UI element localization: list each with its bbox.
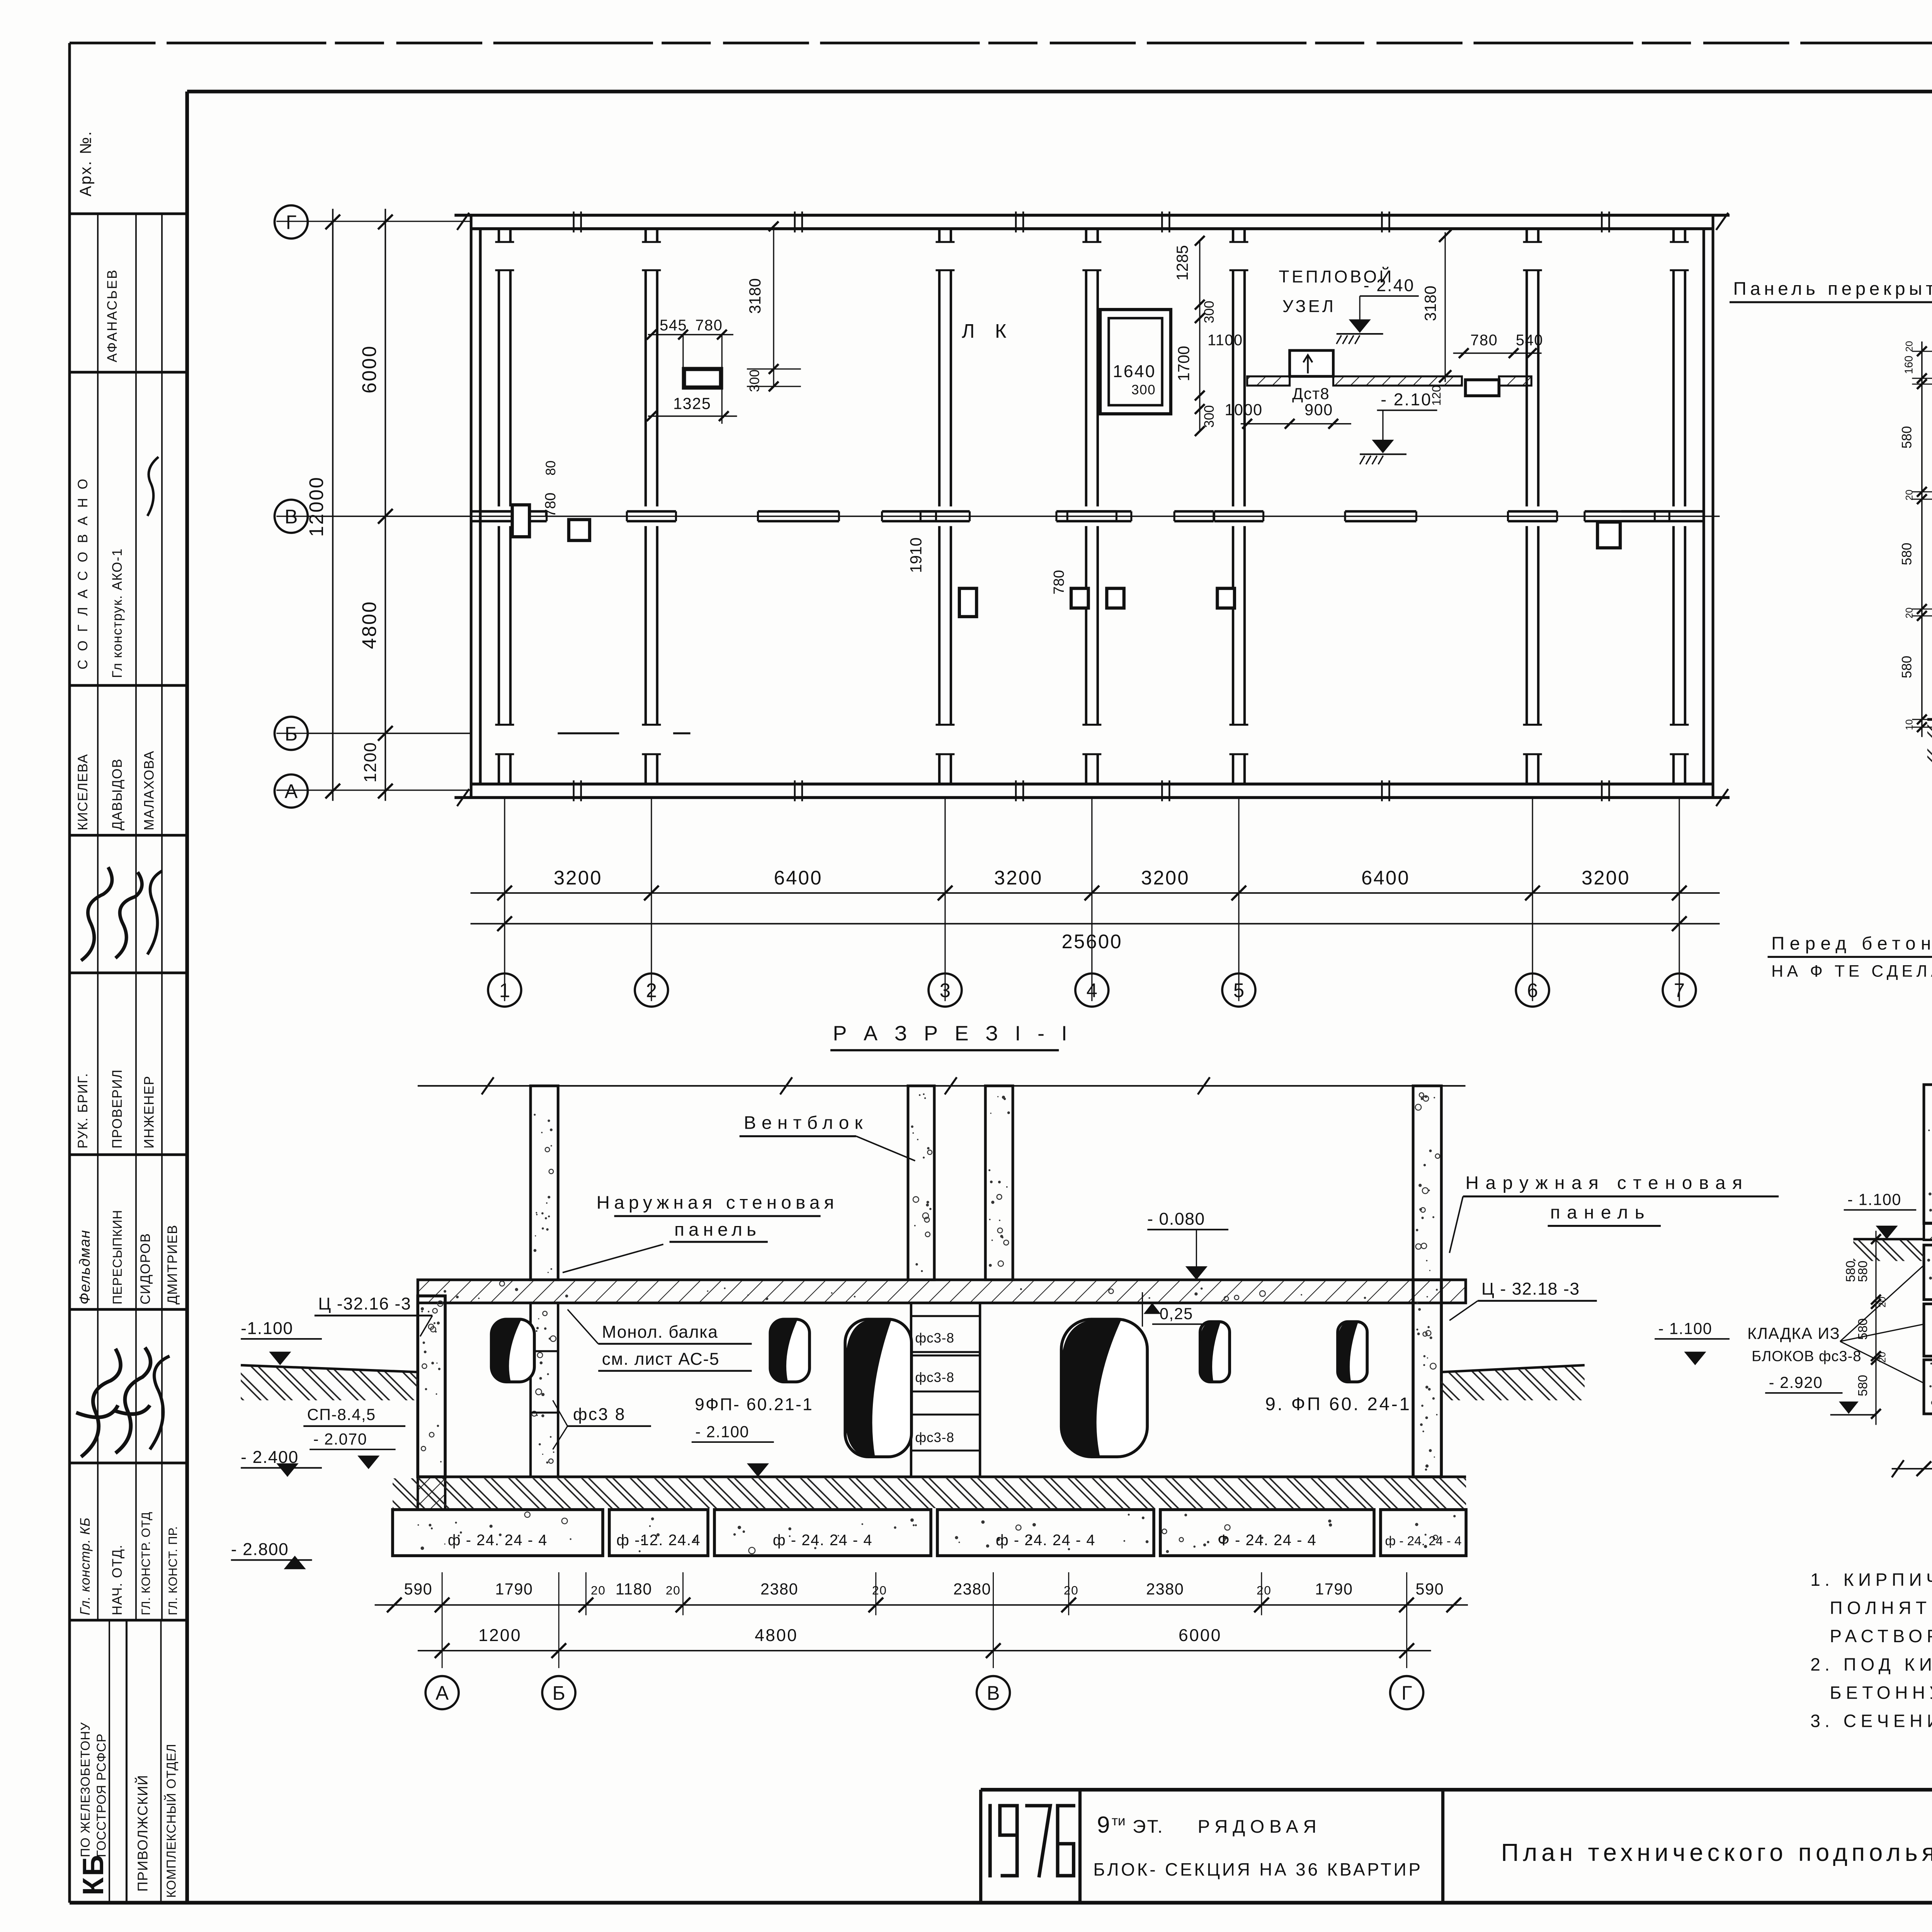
svg-text:2380: 2380 xyxy=(1146,1580,1184,1598)
svg-text:6000: 6000 xyxy=(358,345,380,393)
svg-text:590: 590 xyxy=(404,1580,433,1598)
svg-text:9ФП- 60.21-1: 9ФП- 60.21-1 xyxy=(695,1395,813,1414)
svg-text:НАЧ. ОТД.: НАЧ. ОТД. xyxy=(110,1544,125,1616)
svg-text:2380: 2380 xyxy=(953,1580,991,1598)
svg-text:300: 300 xyxy=(1131,382,1156,397)
svg-text:540: 540 xyxy=(1516,332,1543,349)
svg-text:-1.100: -1.100 xyxy=(241,1319,293,1338)
svg-text:- 1.100: - 1.100 xyxy=(1658,1320,1713,1337)
svg-text:- 2.920: - 2.920 xyxy=(1769,1374,1823,1391)
svg-text:120: 120 xyxy=(1429,385,1443,406)
svg-text:20: 20 xyxy=(872,1583,887,1597)
svg-text:ГЛ. КОНСТР. ОТД: ГЛ. КОНСТР. ОТД xyxy=(139,1512,153,1615)
svg-text:6000: 6000 xyxy=(1179,1626,1222,1645)
svg-text:590: 590 xyxy=(1416,1580,1444,1598)
svg-text:1285: 1285 xyxy=(1173,245,1191,281)
svg-text:В: В xyxy=(285,506,298,528)
svg-text:ф - 24. 24 - 4: ф - 24. 24 - 4 xyxy=(773,1532,872,1549)
svg-text:ф - 24. 24 - 4: ф - 24. 24 - 4 xyxy=(996,1532,1095,1549)
svg-text:СП-8.4,5: СП-8.4,5 xyxy=(307,1406,376,1423)
svg-text:Панель перекрытия: Панель перекрытия xyxy=(1733,279,1932,299)
svg-text:ДМИТРИЕВ: ДМИТРИЕВ xyxy=(165,1225,180,1304)
svg-text:Л К: Л К xyxy=(962,320,1014,342)
svg-text:0,25: 0,25 xyxy=(1160,1305,1193,1323)
svg-text:Р А З Р Е З I - I: Р А З Р Е З I - I xyxy=(833,1022,1073,1045)
svg-text:160: 160 xyxy=(1903,355,1915,374)
svg-text:1790: 1790 xyxy=(495,1580,533,1598)
svg-text:РАСТВОРЕ М 25.: РАСТВОРЕ М 25. xyxy=(1830,1626,1932,1646)
svg-text:АФАНАСЬЕВ: АФАНАСЬЕВ xyxy=(105,269,120,362)
svg-text:3. СЕЧЕНИЕ 13-13 СМ ЛИСТ: 3. СЕЧЕНИЕ 13-13 СМ ЛИСТ АС-7 xyxy=(1810,1711,1932,1731)
svg-text:580: 580 xyxy=(1900,543,1915,565)
svg-text:фс3-8: фс3-8 xyxy=(915,1370,954,1385)
svg-text:5: 5 xyxy=(1233,980,1244,1002)
svg-text:780: 780 xyxy=(1470,332,1498,349)
svg-text:1200: 1200 xyxy=(478,1626,522,1645)
svg-text:6400: 6400 xyxy=(1361,867,1410,889)
svg-text:300: 300 xyxy=(1202,301,1217,323)
svg-text:Вентблок: Вентблок xyxy=(744,1112,868,1133)
svg-text:- 1.100: - 1.100 xyxy=(1847,1191,1901,1209)
svg-text:7: 7 xyxy=(1674,980,1685,1002)
svg-text:ГОССТРОЯ РСФСР: ГОССТРОЯ РСФСР xyxy=(94,1733,109,1857)
svg-text:фс3-8: фс3-8 xyxy=(915,1430,954,1445)
svg-text:ИНЖЕНЕР: ИНЖЕНЕР xyxy=(141,1075,156,1148)
svg-text:КОМПЛЕКСНЫЙ ОТДЕЛ: КОМПЛЕКСНЫЙ ОТДЕЛ xyxy=(164,1743,179,1898)
svg-text:РУК. БРИГ.: РУК. БРИГ. xyxy=(75,1073,90,1148)
svg-text:3180: 3180 xyxy=(1422,286,1439,321)
svg-text:Арх. №.: Арх. №. xyxy=(77,130,94,197)
svg-text:3200: 3200 xyxy=(1141,867,1190,889)
svg-text:Гл. констр. КБ: Гл. констр. КБ xyxy=(78,1517,93,1616)
svg-text:20: 20 xyxy=(1904,607,1915,618)
svg-text:20: 20 xyxy=(591,1583,606,1597)
svg-text:Гл конструк. АКО-1: Гл конструк. АКО-1 xyxy=(110,548,125,678)
svg-text:20: 20 xyxy=(666,1583,681,1597)
svg-text:Ц -32.16 -3: Ц -32.16 -3 xyxy=(318,1294,411,1313)
svg-text:2: 2 xyxy=(646,980,657,1002)
svg-text:20: 20 xyxy=(1064,1583,1079,1597)
svg-text:- 2.800: - 2.800 xyxy=(231,1540,289,1559)
svg-text:Г: Г xyxy=(1401,1682,1412,1704)
svg-text:КИСЕЛЕВА: КИСЕЛЕВА xyxy=(75,753,90,830)
svg-text:1325: 1325 xyxy=(673,395,711,413)
svg-text:ГЛ. КОНСТ. ПР.: ГЛ. КОНСТ. ПР. xyxy=(166,1526,180,1615)
svg-text:6400: 6400 xyxy=(774,867,823,889)
svg-text:580: 580 xyxy=(1900,656,1915,678)
svg-text:20: 20 xyxy=(1877,1352,1888,1363)
svg-text:панель: панель xyxy=(674,1219,760,1240)
svg-text:План технического подпол: План технического подполья . Разрезы . xyxy=(1501,1839,1932,1866)
svg-text:Наружная стеновая: Наружная стеновая xyxy=(597,1192,838,1213)
svg-text:фс3-8: фс3-8 xyxy=(915,1331,954,1346)
svg-text:РЯДОВАЯ: РЯДОВАЯ xyxy=(1198,1816,1321,1837)
svg-text:УЗЕЛ: УЗЕЛ xyxy=(1282,297,1336,316)
svg-text:Фельдман: Фельдман xyxy=(77,1230,93,1304)
svg-text:1200: 1200 xyxy=(361,742,380,782)
svg-text:НА Ф ТЕ СДЕЛАТЬ НАСЕЧКУ: НА Ф ТЕ СДЕЛАТЬ НАСЕЧКУ xyxy=(1771,962,1932,980)
svg-text:МАЛАХОВА: МАЛАХОВА xyxy=(141,750,156,830)
svg-text:Дст8: Дст8 xyxy=(1292,385,1330,403)
svg-text:780: 780 xyxy=(695,317,723,334)
svg-text:ПОЛНЯТЬ ИЗ КИРПИЧА ГЛИНЯНО: ПОЛНЯТЬ ИЗ КИРПИЧА ГЛИНЯНОГО ОБЫКНОВЕННО… xyxy=(1830,1598,1932,1618)
svg-text:ф - 24. 24 - 4: ф - 24. 24 - 4 xyxy=(448,1532,548,1549)
svg-text:20: 20 xyxy=(1904,341,1915,352)
svg-text:ф -12. 24.4: ф -12. 24.4 xyxy=(616,1532,701,1549)
svg-text:3200: 3200 xyxy=(554,867,602,889)
svg-text:3180: 3180 xyxy=(746,278,764,314)
svg-text:3200: 3200 xyxy=(1582,867,1630,889)
svg-text:В: В xyxy=(987,1682,1000,1704)
svg-text:580: 580 xyxy=(1900,426,1915,449)
svg-text:580: 580 xyxy=(1856,1318,1870,1340)
svg-text:3: 3 xyxy=(940,980,951,1002)
svg-text:СИДОРОВ: СИДОРОВ xyxy=(138,1233,153,1304)
svg-text:А: А xyxy=(435,1682,449,1704)
svg-text:А: А xyxy=(285,781,298,803)
svg-text:20: 20 xyxy=(1877,1297,1888,1308)
svg-text:ПО ЖЕЛЕЗОБЕТОНУ: ПО ЖЕЛЕЗОБЕТОНУ xyxy=(78,1722,93,1857)
svg-text:12000: 12000 xyxy=(305,476,327,537)
svg-text:Ц - 32.18 -3: Ц - 32.18 -3 xyxy=(1481,1280,1580,1299)
svg-text:2. ПОД КИРПИЧНУЮ СТЕНКУ В: 2. ПОД КИРПИЧНУЮ СТЕНКУ В ТЕПЛОВОМ УЗЛЕ … xyxy=(1810,1654,1932,1674)
svg-text:- 2.10: - 2.10 xyxy=(1381,390,1432,409)
svg-text:- 2.100: - 2.100 xyxy=(695,1423,749,1440)
svg-text:см. лист АС-5: см. лист АС-5 xyxy=(602,1350,719,1369)
svg-text:1910: 1910 xyxy=(907,537,925,573)
svg-text:780: 780 xyxy=(1051,570,1067,595)
svg-text:25600: 25600 xyxy=(1061,930,1122,952)
svg-text:300: 300 xyxy=(747,369,762,392)
svg-text:900: 900 xyxy=(1304,401,1333,418)
svg-text:2380: 2380 xyxy=(760,1580,798,1598)
svg-text:фс3 8: фс3 8 xyxy=(573,1405,626,1424)
svg-text:1: 1 xyxy=(499,980,510,1002)
svg-text:Б: Б xyxy=(552,1682,565,1704)
svg-text:1790: 1790 xyxy=(1315,1580,1353,1598)
svg-text:580: 580 xyxy=(1856,1375,1870,1396)
svg-text:4800: 4800 xyxy=(755,1626,798,1645)
svg-text:БЕТОННУЮ ПОДГОТОВКУ h = 1: БЕТОННУЮ ПОДГОТОВКУ h = 150 ММ ИЗ БЕТОНА… xyxy=(1830,1682,1932,1702)
svg-text:4800: 4800 xyxy=(358,600,380,649)
svg-text:4: 4 xyxy=(1087,980,1097,1002)
svg-text:80: 80 xyxy=(543,461,558,476)
svg-text:1700: 1700 xyxy=(1175,346,1192,381)
svg-text:ПРОВЕРИЛ: ПРОВЕРИЛ xyxy=(110,1069,125,1149)
svg-text:1. КИРПИЧНУЮ КЛАДКУ В ПРЕД: 1. КИРПИЧНУЮ КЛАДКУ В ПРЕДЕЛАХ ТЕХНИЧЕСК… xyxy=(1810,1570,1932,1590)
svg-text:Перед бетонированием: Перед бетонированием xyxy=(1771,933,1932,954)
svg-text:Монол. балка: Монол. балка xyxy=(602,1323,718,1342)
svg-text:1000: 1000 xyxy=(1225,401,1262,418)
svg-text:- 2.40: - 2.40 xyxy=(1364,276,1415,295)
svg-text:- 2.070: - 2.070 xyxy=(313,1430,367,1448)
svg-text:ти: ти xyxy=(1112,1813,1126,1828)
svg-text:10: 10 xyxy=(1904,719,1915,730)
svg-text:КЛАДКА ИЗ: КЛАДКА ИЗ xyxy=(1747,1325,1840,1342)
svg-text:3200: 3200 xyxy=(994,867,1043,889)
svg-text:300: 300 xyxy=(1202,405,1217,427)
svg-text:780: 780 xyxy=(542,493,559,517)
svg-text:Наружная стеновая: Наружная стеновая xyxy=(1466,1173,1749,1193)
svg-text:545: 545 xyxy=(660,317,687,334)
svg-text:20: 20 xyxy=(1904,490,1915,500)
svg-text:- 0.080: - 0.080 xyxy=(1147,1209,1205,1228)
svg-text:ДАВЫДОВ: ДАВЫДОВ xyxy=(110,758,125,830)
svg-text:С О Г Л А С О В А Н О: С О Г Л А С О В А Н О xyxy=(75,476,90,670)
svg-text:20: 20 xyxy=(1257,1583,1272,1597)
svg-text:6: 6 xyxy=(1527,980,1538,1002)
svg-text:ПЕРЕСЫПКИН: ПЕРЕСЫПКИН xyxy=(111,1210,125,1304)
svg-text:1100: 1100 xyxy=(1207,332,1243,349)
svg-text:панель: панель xyxy=(1550,1202,1651,1223)
svg-text:БЛОКОВ фс3-8: БЛОКОВ фс3-8 xyxy=(1752,1348,1861,1364)
svg-text:1180: 1180 xyxy=(616,1580,652,1598)
svg-text:1640: 1640 xyxy=(1113,362,1156,381)
svg-text:Ф - 24. 24 - 4: Ф - 24. 24 - 4 xyxy=(1218,1532,1317,1549)
svg-text:580: 580 xyxy=(1856,1260,1870,1282)
svg-text:580: 580 xyxy=(1844,1260,1858,1282)
svg-text:ЭТ.: ЭТ. xyxy=(1133,1816,1164,1837)
svg-text:ПРИВОЛЖСКИЙ: ПРИВОЛЖСКИЙ xyxy=(134,1774,151,1891)
svg-text:ф - 24. 24 - 4: ф - 24. 24 - 4 xyxy=(1385,1534,1461,1548)
svg-text:КБ: КБ xyxy=(77,1854,110,1895)
svg-text:Г: Г xyxy=(286,211,297,233)
svg-text:9: 9 xyxy=(1097,1811,1110,1838)
svg-text:БЛОК- СЕКЦИЯ НА 36 КВАРТИР: БЛОК- СЕКЦИЯ НА 36 КВАРТИР xyxy=(1093,1859,1423,1879)
svg-text:9. ФП 60. 24-1: 9. ФП 60. 24-1 xyxy=(1265,1394,1411,1414)
svg-text:Б: Б xyxy=(285,723,298,745)
